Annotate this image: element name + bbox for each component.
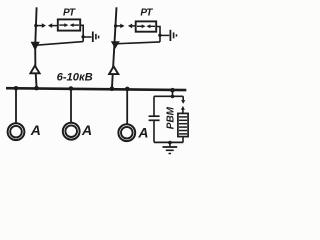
ground G2 (horizontal): [160, 30, 177, 41]
spark gap FU2 line-side electrode (right arrow): [116, 24, 125, 29]
node: bus junction right conductor: [110, 87, 115, 92]
arrester F1 upper electrode (filled triangle): [31, 42, 40, 51]
svg-text:6-10кВ: 6-10кВ: [57, 71, 93, 83]
node: branch ground junction: [168, 141, 172, 145]
tubular arrester PT2 body: [136, 21, 157, 31]
wire: PT1 to ground node: [80, 25, 83, 41]
ground G3: [163, 143, 178, 154]
svg-text:А: А: [81, 122, 92, 138]
ground G1 (horizontal): [83, 32, 98, 43]
wire: branch top rail: [154, 95, 183, 97]
svg-text:А: А: [137, 124, 148, 140]
svg-text:РТ: РТ: [63, 8, 76, 19]
valve arrester FV gap lower electrode (up arrow): [181, 106, 185, 114]
valve arrester FV gap upper electrode (down arrow): [181, 96, 185, 104]
feeder ring W1: [8, 123, 25, 140]
valve arrester FV resistor stripes: [179, 117, 187, 134]
spark gap FU2 arrester-side electrode (left arrow): [128, 24, 136, 29]
wire: right return to conductor: [115, 42, 160, 44]
wire: left phase conductor: [35, 7, 36, 88]
wire: feeder 3: [126, 89, 128, 124]
tubular arrester PT2 internal gap arrows: [137, 24, 155, 28]
node: bus junction feeder 1: [14, 86, 19, 91]
node: left ground junction: [81, 35, 84, 38]
feeder ring W2: [63, 123, 80, 140]
feeder ring W3: [118, 124, 135, 141]
node: bus junction feeder 3: [125, 87, 130, 92]
spark gap FU1 line-side electrode (right arrow): [36, 23, 46, 28]
wire: PT2 to ground node: [156, 27, 160, 42]
wire: feeder 1: [15, 88, 17, 123]
tubular arrester PT1 body: [58, 19, 80, 30]
svg-text:РТ: РТ: [140, 8, 153, 19]
valve arrester FV working resistor body: [178, 113, 188, 136]
bus 6-10kV: [6, 88, 186, 90]
svg-text:РВМ: РВМ: [165, 106, 176, 129]
wire: capacitor leg lower: [153, 120, 155, 142]
arrester F2 lower electrode (hollow triangle): [109, 66, 118, 74]
node: bus junction arrester branch: [170, 88, 175, 93]
node: left spark-gap tap junction: [34, 24, 37, 27]
node: bus junction feeder 2: [69, 86, 74, 91]
spark gap FU1 arrester-side electrode (left arrow): [48, 23, 58, 28]
node: right ground junction: [158, 34, 161, 37]
arrester F2 upper electrode (filled triangle): [111, 41, 120, 49]
wire: capacitor leg upper: [153, 96, 155, 116]
wire: left return to conductor: [36, 42, 83, 46]
wire: feeder 2: [70, 89, 72, 123]
capacitor C1: [149, 116, 160, 120]
node: right spark-gap tap junction: [114, 24, 117, 27]
wire: branch bottom rail: [154, 141, 183, 143]
wire: right phase conductor: [112, 7, 117, 88]
wire: bus drop to arrester branch: [172, 90, 174, 96]
node: branch top junction: [171, 95, 175, 99]
arrester F1 lower electrode (hollow triangle): [30, 66, 39, 74]
node: bus junction left conductor: [34, 86, 39, 91]
svg-text:А: А: [30, 122, 41, 138]
wire: arrester leg lower: [182, 137, 184, 143]
tubular arrester PT1 internal gap arrows: [59, 23, 79, 27]
